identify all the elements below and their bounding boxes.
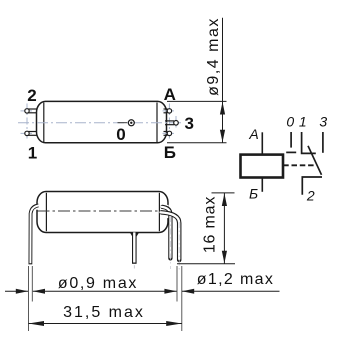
svg-text:2: 2 [27, 86, 36, 105]
svg-text:Б: Б [164, 143, 176, 162]
svg-text:0: 0 [116, 125, 125, 144]
svg-text:0: 0 [286, 113, 294, 129]
movable blade [308, 146, 322, 175]
arrow down [220, 130, 225, 143]
lead Б [261, 178, 263, 192]
body envelope [37, 101, 167, 142]
lead А [261, 132, 263, 154]
svg-text:3: 3 [184, 114, 193, 133]
contact pin 0 plate [286, 151, 296, 153]
pin 2 (top left lead stub) [25, 109, 37, 113]
right tail line [182, 290, 280, 292]
left seal line [43, 103, 45, 143]
svg-text:Б: Б [249, 185, 258, 201]
extension line from outer right lead left edge [176, 266, 178, 302]
centerline (axis) of body [18, 122, 184, 124]
arrow up [220, 102, 225, 115]
extension line top [167, 100, 227, 102]
svg-text:3: 3 [319, 113, 327, 129]
mid dim line [33, 290, 177, 292]
centerline of body [38, 210, 167, 212]
bottom tick [177, 263, 235, 265]
top tick [212, 192, 235, 194]
dim line [223, 193, 225, 264]
pin 3 (middle right lead) [165, 121, 178, 126]
extension line from outer right lead right edge [181, 266, 183, 331]
arrow right [166, 321, 182, 326]
right outside arrow [182, 289, 194, 294]
body envelope [37, 192, 168, 233]
node 0 marker (center tap) [128, 120, 134, 126]
right inner formed lead [163, 207, 171, 259]
arrow left [28, 321, 44, 326]
arrow left of right lead [164, 289, 176, 294]
pin 1 (bottom left lead stub) [25, 131, 37, 135]
arrow down [222, 251, 227, 264]
mechanical link (dashed) [283, 164, 315, 166]
extension line from left lead right edge [31, 266, 33, 302]
right seal line [156, 103, 158, 143]
svg-text:2: 2 [306, 188, 315, 204]
contact pin 2 [302, 177, 322, 195]
centerline dark dash near node 0 [118, 122, 128, 124]
extension line from left lead left edge [28, 266, 30, 331]
right outer formed lead [162, 212, 180, 260]
arrow up [222, 193, 227, 206]
svg-text:31,5 max: 31,5 max [63, 304, 145, 321]
svg-text:ø0,9 max: ø0,9 max [58, 275, 138, 292]
middle lead (pin 0) flare [130, 233, 139, 237]
pin 2 crosshair [21, 104, 35, 141]
right seal line [158, 193, 160, 231]
faint wire axis lines [170, 216, 179, 270]
left seal line [45, 193, 47, 231]
dim line [28, 323, 181, 325]
arrow right of left lead [33, 289, 45, 294]
pin А (top right lead stub) [164, 109, 172, 113]
left tail line [5, 290, 28, 292]
extension line bottom [167, 142, 227, 144]
contact pin 1 [302, 132, 316, 153]
contact pin 3 [322, 132, 324, 153]
svg-text:ø1,2 max: ø1,2 max [197, 271, 275, 288]
svg-text:ø9,4 max: ø9,4 max [205, 17, 222, 96]
pin Б (bottom right lead stub) [164, 131, 172, 135]
svg-text:1: 1 [28, 144, 37, 163]
svg-text:А: А [248, 126, 258, 142]
svg-text:16 max: 16 max [202, 196, 219, 253]
left formed lead (wire) [30, 205, 38, 264]
svg-text:1: 1 [299, 113, 307, 129]
wire exit masks [36, 204, 42, 210]
left outside arrow [16, 289, 28, 294]
contact pin 0 [290, 132, 292, 148]
middle lead (pin 0) [132, 233, 137, 264]
pins А/Б crosshair [163, 104, 177, 141]
dimension line vertical [222, 18, 224, 143]
coil winding U1 [241, 155, 284, 178]
